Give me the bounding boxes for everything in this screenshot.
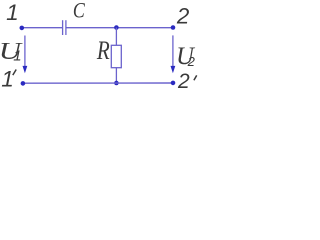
voltage arrow U1 (across port 1) (23, 36, 28, 74)
svg-text:C: C (73, 0, 85, 23)
label: prime mark of 1' (13, 70, 16, 76)
resistor R (body) (111, 45, 121, 67)
node 1 (terminal dot) (20, 26, 25, 31)
node: junction dot at top of resistor branch (114, 25, 119, 30)
wire: bottom rail, node 1' to node 2' (23, 82, 173, 84)
svg-text:2: 2 (177, 70, 190, 90)
wire: junction to resistor top (115, 28, 117, 46)
wire: top rail, capacitor right plate to node 2 (66, 27, 173, 29)
svg-text:1: 1 (13, 48, 21, 65)
label: prime mark of 2' (194, 75, 197, 80)
node 1' (terminal dot) (21, 81, 26, 86)
voltage arrow U2 (across port 2) (171, 35, 176, 73)
svg-text:2: 2 (187, 54, 196, 69)
wire: top rail, node 1 to capacitor left plate (22, 27, 62, 29)
svg-text:R: R (96, 37, 110, 66)
node 2' (terminal dot) (171, 81, 176, 86)
capacitor C (plates) (63, 20, 66, 35)
svg-text:1: 1 (6, 0, 19, 25)
node: junction dot at bottom of resistor branch (114, 81, 119, 86)
svg-text:1: 1 (1, 67, 14, 90)
svg-text:2: 2 (176, 4, 190, 29)
wire: resistor bottom to bottom rail (115, 68, 117, 83)
node 2 (terminal dot) (171, 25, 176, 30)
